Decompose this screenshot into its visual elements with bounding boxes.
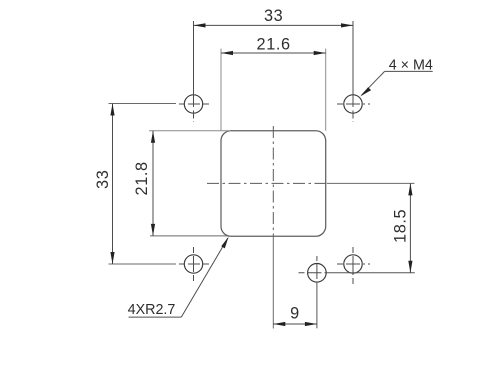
svg-text:21.8: 21.8: [133, 161, 151, 195]
extra hole vertical centerline dash above: [316, 256, 318, 282]
svg-text:18.5: 18.5: [391, 209, 409, 243]
svg-text:4XR2.7: 4XR2.7: [128, 302, 176, 318]
dim 33 left: bottom arrow: [110, 252, 114, 264]
label 4 x M4: leader line: [362, 71, 385, 95]
label 4XR2.7: underline: [129, 316, 182, 318]
dim 18.5: bottom arrow: [408, 261, 412, 273]
hole TL vertical centerline tick below: [193, 107, 195, 122]
dim 21.8: top extension line: [149, 130, 231, 132]
svg-text:21.6: 21.6: [257, 35, 291, 53]
horizontal centerline of cutout: [207, 182, 327, 184]
hole TR horizontal centerline: [337, 103, 373, 105]
dim 21.6: right extension line: [325, 49, 327, 131]
dim 18.5: dimension line: [409, 183, 411, 272]
extra hole vertical solid extension down to 9 dim: [316, 282, 318, 328]
panel cutout outline (rounded square): [221, 131, 326, 237]
hole BR vertical centerline: [352, 247, 354, 284]
dim 21.8: dimension line: [152, 131, 154, 236]
dim 21.6: right arrow: [314, 51, 326, 55]
hole TR vertical centerline tick below: [352, 107, 354, 122]
dim 9: left arrow: [273, 322, 285, 326]
dim 21.8: top arrow: [151, 131, 155, 143]
dim 33 top: right arrow: [341, 23, 353, 27]
horizontal centerline solid extension to 18.5 dim: [327, 182, 415, 184]
vertical centerline of cutout: [272, 126, 274, 236]
dim 9: dimension line: [273, 323, 317, 325]
dim 9: right arrow: [305, 322, 317, 326]
label 4XR2.7: leader line: [181, 238, 228, 317]
dim 33 left: top extension line: [109, 103, 177, 105]
dim 33 top: left extension line through TL hole: [193, 21, 195, 107]
svg-text:33: 33: [94, 170, 112, 189]
dim 21.6: left extension line: [220, 49, 222, 131]
extra hole horizontal centerline dashes: [299, 272, 328, 274]
label 4 x M4: underline: [385, 70, 433, 72]
dim 21.6: dimension line: [221, 52, 326, 54]
hole TL circle: [184, 95, 202, 113]
label 4XR2.7: leader arrow: [221, 237, 228, 249]
hole BL circle: [184, 255, 202, 273]
dim 21.8: bottom extension line: [150, 235, 228, 237]
extra hole circle: [308, 264, 327, 283]
dim 33 left: bottom extension line: [109, 263, 177, 265]
svg-text:33: 33: [264, 7, 283, 25]
dim 21.6: left arrow: [221, 51, 233, 55]
dim 33 top: right extension line through TR hole: [352, 21, 354, 107]
dim 18.5: top arrow: [408, 183, 412, 195]
label 4 x M4: leader arrow: [360, 87, 371, 96]
extra hole horizontal solid extension to 18.5 dim: [327, 272, 415, 274]
hole TL horizontal centerline: [179, 103, 209, 105]
dim 33 top: dimension line: [194, 24, 354, 26]
svg-text:9: 9: [290, 305, 300, 323]
dim 33 left: dimension line: [112, 104, 114, 265]
hole BL vertical centerline: [193, 247, 195, 281]
hole BR circle: [344, 255, 362, 273]
hole BR horizontal centerline: [337, 263, 373, 265]
hole BL horizontal centerline: [179, 263, 209, 265]
dim 33 left: top arrow: [110, 104, 114, 116]
dim 33 top: left arrow: [194, 23, 206, 27]
vertical centerline solid extension down to 9 dim: [272, 236, 274, 328]
hole TR circle: [344, 95, 362, 113]
dim 21.8: bottom arrow: [151, 224, 155, 236]
